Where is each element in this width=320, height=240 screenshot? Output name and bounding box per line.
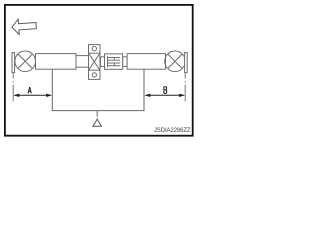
right universal joint (circled X) <box>165 51 186 72</box>
direction arrow (front-of-vehicle block arrow) <box>11 18 36 35</box>
border frame <box>5 5 193 136</box>
2nd propeller shaft tube <box>127 54 165 70</box>
left universal joint (circled X) <box>15 51 36 72</box>
dimension line B <box>144 94 185 97</box>
left neck (tube end) <box>76 56 89 68</box>
right flange yoke bar <box>185 53 188 73</box>
right neck <box>123 57 127 67</box>
right extension centerline <box>184 73 186 102</box>
1st propeller shaft tube <box>36 54 77 70</box>
label A <box>28 87 31 93</box>
slip-spline sleeve <box>105 54 123 69</box>
center connector stub <box>101 57 105 67</box>
triangle marker <box>93 119 101 126</box>
label B <box>164 87 167 94</box>
svg-text:JSDIA2286ZZ: JSDIA2286ZZ <box>154 128 191 134</box>
bracket (overall length callout) <box>52 69 144 116</box>
dimension line A <box>13 94 52 97</box>
center journal flange <box>89 45 101 80</box>
left flange yoke bar <box>12 53 15 73</box>
left extension centerline <box>12 73 14 102</box>
